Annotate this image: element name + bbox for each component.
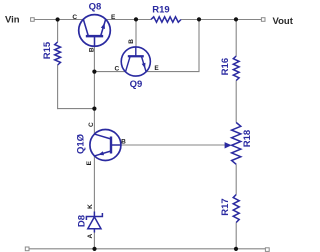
wire bottom rail xyxy=(29,248,265,250)
wire Q9 emitter riser to rail xyxy=(146,20,199,72)
svg-text:Q1Ø: Q1Ø xyxy=(76,134,87,154)
node Q9 collector junction xyxy=(92,70,96,74)
terminal Vin xyxy=(31,18,35,22)
terminal Vout xyxy=(261,18,265,22)
svg-text:R19: R19 xyxy=(152,4,169,15)
node Q9 emitter rail junction xyxy=(197,17,201,21)
transistor Q8 xyxy=(79,15,111,47)
terminal bottom right xyxy=(265,248,269,252)
wire R17 to bottom rail xyxy=(235,223,237,250)
svg-text:D8: D8 xyxy=(77,215,88,227)
svg-text:Vin: Vin xyxy=(5,15,20,26)
svg-text:E: E xyxy=(111,14,116,21)
wire rail to R15 top xyxy=(57,20,59,43)
svg-text:C: C xyxy=(114,66,119,73)
svg-text:A: A xyxy=(87,233,94,238)
wire Q9 collector to base column xyxy=(94,71,125,73)
wire R15 bottom down xyxy=(57,65,59,109)
terminal bottom left xyxy=(25,247,29,251)
resistor R15 xyxy=(55,42,61,65)
svg-text:Q9: Q9 xyxy=(130,79,143,90)
potentiometer R18 xyxy=(232,123,241,165)
node D8 bottom rail junction xyxy=(92,247,96,251)
svg-text:B: B xyxy=(121,139,126,146)
svg-text:E: E xyxy=(86,160,93,165)
wire D8 anode to bottom rail xyxy=(93,232,95,249)
wire R16 to R18 xyxy=(235,81,237,123)
node R15/base column junction xyxy=(92,107,96,111)
wire Q9 base up to rail xyxy=(135,20,137,47)
svg-text:R18: R18 xyxy=(242,130,253,147)
svg-text:B: B xyxy=(128,39,135,44)
svg-text:C: C xyxy=(72,14,77,21)
node R16 rail junction xyxy=(234,17,238,21)
wire R18 to R17 xyxy=(235,164,237,194)
wire Q8 emitter to R19 xyxy=(105,19,151,21)
svg-text:C: C xyxy=(88,122,95,127)
transistor Q10 xyxy=(90,130,121,161)
node Vin/R15 junction xyxy=(56,17,60,21)
potentiometer R18 wiper arrow xyxy=(225,142,232,148)
svg-text:R15: R15 xyxy=(42,41,53,59)
resistor R16 xyxy=(233,56,239,81)
wire R19 to Vout terminal xyxy=(181,19,261,21)
svg-text:K: K xyxy=(87,204,94,209)
resistor R17 xyxy=(233,195,239,223)
node R17 bottom rail junction xyxy=(234,247,238,251)
wire Q10 base to R18 wiper xyxy=(121,144,225,146)
wire Vin to Q8 collector xyxy=(34,19,84,21)
svg-text:Vout: Vout xyxy=(273,16,294,27)
resistor R19 xyxy=(151,17,181,22)
wire Q10 emitter to D8 cathode xyxy=(93,156,95,212)
svg-text:Q8: Q8 xyxy=(89,2,102,13)
svg-text:R17: R17 xyxy=(220,198,231,215)
wire R15 to node junction xyxy=(57,108,94,110)
svg-text:B: B xyxy=(89,47,96,52)
wire Q8 base down to Q10 collector xyxy=(93,46,95,134)
transistor Q9 xyxy=(121,47,150,76)
svg-text:R16: R16 xyxy=(220,58,231,75)
wire rail to R16 xyxy=(235,20,237,57)
svg-text:E: E xyxy=(154,65,159,72)
zener diode D8 xyxy=(86,212,102,233)
node Q9 base rail junction xyxy=(134,17,138,21)
